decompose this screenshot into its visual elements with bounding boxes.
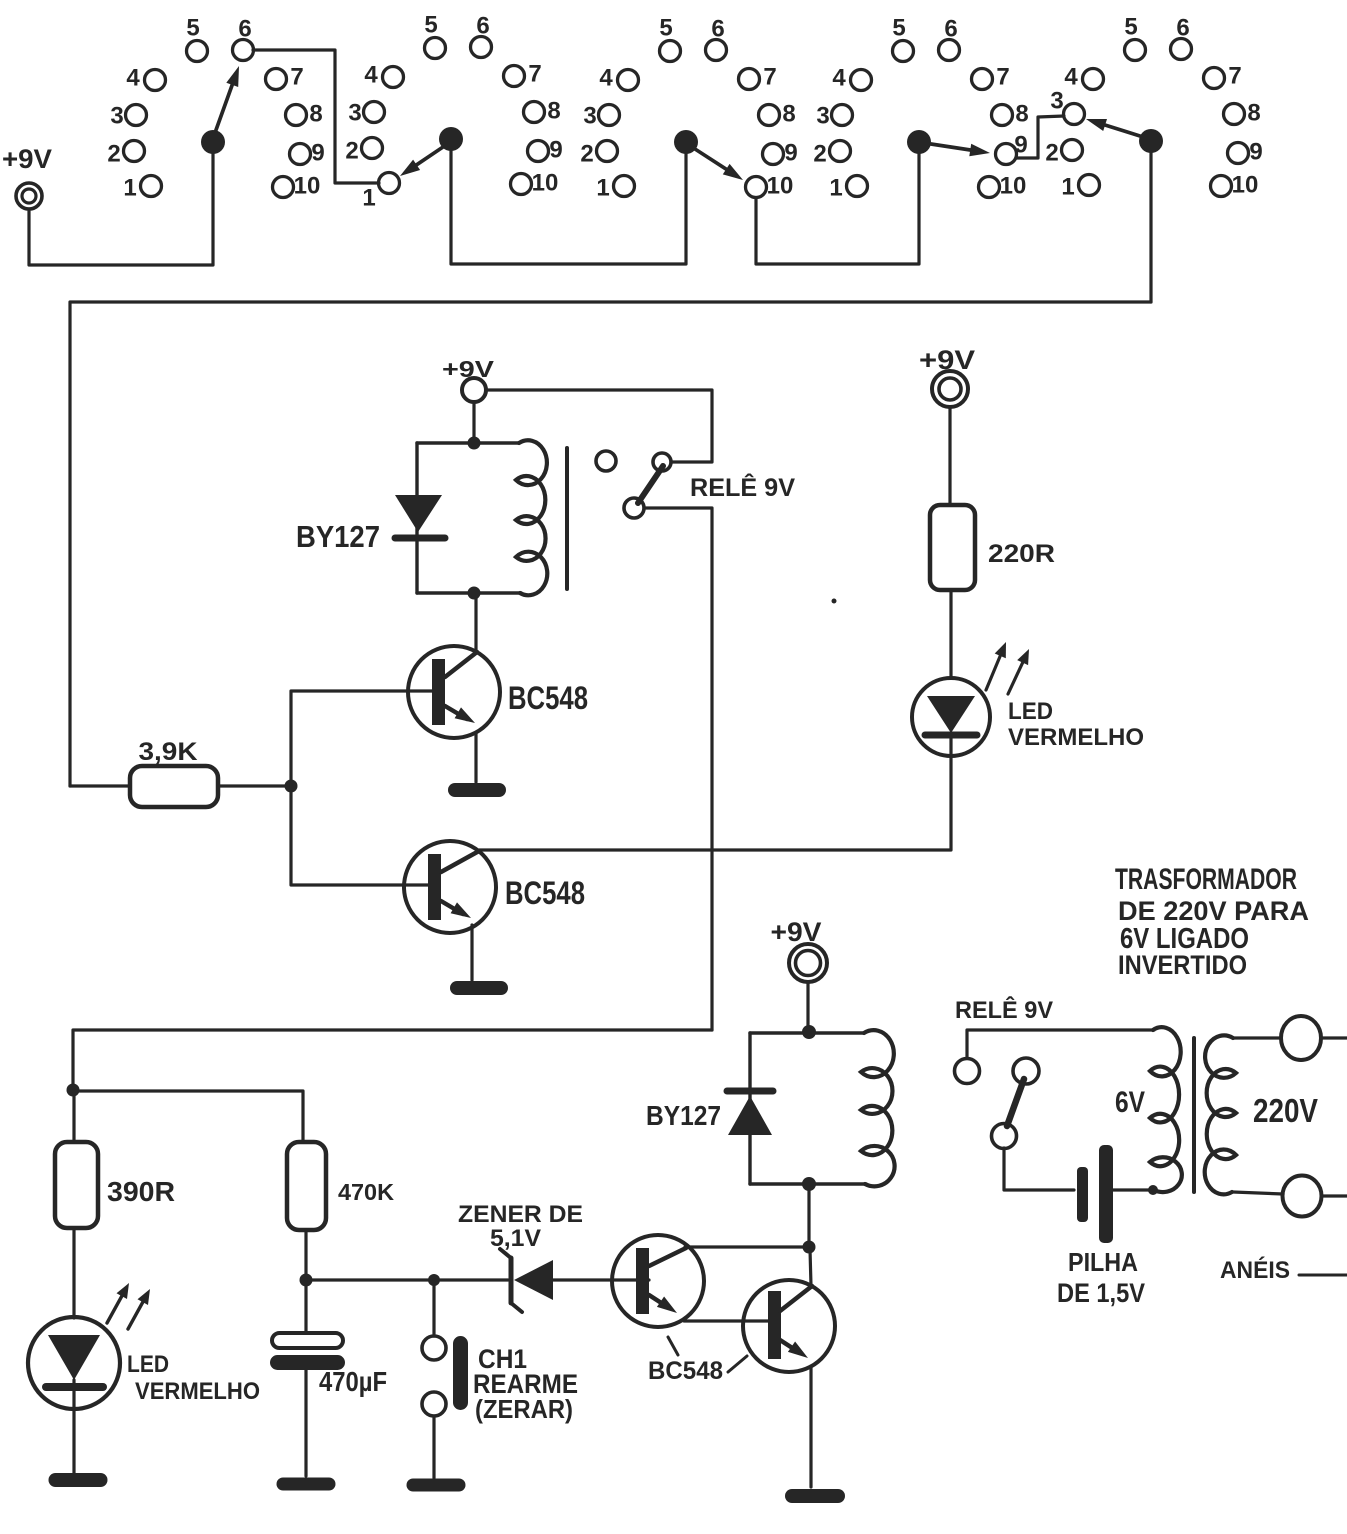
diode BY127 (relay1 flyback) bbox=[296, 495, 445, 554]
S2 contact 4 bbox=[364, 62, 403, 89]
svg-text:2: 2 bbox=[1045, 140, 1058, 167]
transformer 6V primary coil bbox=[1150, 1027, 1182, 1192]
wire capacitor to ground bbox=[304, 1370, 307, 1476]
svg-text:DE 220V PARA: DE 220V PARA bbox=[1118, 896, 1309, 926]
wire node to 470K bbox=[73, 1091, 303, 1142]
wire +9V to relay1 coil top bbox=[472, 402, 475, 443]
relay2 frame left edge bbox=[748, 1033, 751, 1184]
S2 contact 7 bbox=[504, 61, 542, 88]
S4 contact 3 bbox=[816, 103, 852, 130]
svg-text:6: 6 bbox=[476, 13, 489, 40]
switch CH1 REARME bbox=[422, 1280, 578, 1424]
svg-text:2: 2 bbox=[580, 141, 593, 168]
relay2 left contact bbox=[955, 1059, 980, 1084]
stray scan speck bbox=[832, 599, 837, 604]
S5 wiper bbox=[1139, 129, 1163, 153]
ring (anel) 2 bbox=[1283, 1176, 1322, 1217]
ground Q1 bbox=[448, 783, 506, 797]
transistor Q2 BC548 bbox=[404, 841, 585, 933]
junction lower-left node bbox=[67, 1084, 80, 1097]
svg-text:+9V: +9V bbox=[771, 917, 822, 947]
svg-text:ANÉIS: ANÉIS bbox=[1220, 1256, 1290, 1284]
svg-text:3,9K: 3,9K bbox=[139, 738, 198, 766]
svg-text:10: 10 bbox=[767, 173, 794, 200]
wire relay2 common to battery bbox=[1004, 1148, 1074, 1190]
wire relay2 contact to 6V coil top bbox=[967, 1030, 1154, 1058]
svg-text:7: 7 bbox=[996, 64, 1009, 91]
svg-text:7: 7 bbox=[1228, 63, 1241, 90]
wire S1 contact 6 to S2 contact 1 bbox=[253, 50, 379, 183]
svg-text:8: 8 bbox=[309, 101, 322, 128]
relay1 coil bbox=[417, 441, 519, 444]
svg-text:BY127: BY127 bbox=[296, 519, 380, 554]
relay1 frame left edge bbox=[415, 443, 418, 593]
diode BY127 (relay2 flyback) bbox=[646, 1091, 773, 1135]
junction 470K / capacitor node bbox=[300, 1274, 313, 1287]
svg-text:5: 5 bbox=[186, 15, 199, 42]
transformer 220V secondary coil bbox=[1205, 1035, 1236, 1194]
relay2 right contact bbox=[1013, 1058, 1039, 1084]
svg-text:3: 3 bbox=[348, 100, 361, 127]
+9V terminal (LED indicator) bbox=[919, 345, 975, 407]
svg-text:1: 1 bbox=[123, 175, 136, 202]
wire ring 1 to edge bbox=[1321, 1036, 1347, 1039]
wire S4 contact 9 to S5 contact 3 bbox=[1016, 116, 1064, 158]
S5 contact 10 bbox=[1211, 172, 1259, 199]
relay1 NC contact bbox=[653, 453, 671, 471]
svg-text:PILHA: PILHA bbox=[1068, 1247, 1138, 1277]
svg-text:5: 5 bbox=[892, 15, 905, 42]
junction relay2 coil bottom bbox=[802, 1177, 816, 1191]
svg-text:BY127: BY127 bbox=[646, 1100, 721, 1131]
S1 wiper arrow to contact 6 bbox=[216, 79, 234, 130]
wire +9V terminal to S1 wiper bbox=[29, 151, 213, 265]
svg-text:4: 4 bbox=[364, 62, 378, 89]
svg-text:6: 6 bbox=[944, 16, 957, 43]
wire S3 contact 10 to S4 wiper bbox=[756, 153, 919, 264]
S4 contact 9 bbox=[996, 132, 1028, 165]
S1 contact 10 bbox=[273, 173, 321, 200]
S3 wiper bbox=[674, 130, 698, 154]
svg-text:4: 4 bbox=[126, 65, 140, 92]
S1 contact 9 bbox=[290, 140, 325, 167]
svg-text:VERMELHO: VERMELHO bbox=[135, 1378, 260, 1405]
wire 3,9K to base junction bbox=[218, 784, 291, 787]
LED VERMELHO (indicator) bbox=[912, 642, 1144, 756]
svg-text:8: 8 bbox=[1015, 101, 1028, 128]
svg-text:9: 9 bbox=[1014, 132, 1027, 159]
junction CH1 node bbox=[428, 1274, 440, 1286]
label ANEIS bbox=[1220, 1256, 1347, 1284]
wire +9V to relay1 contact bbox=[486, 390, 712, 462]
wire Q1 emitter to ground bbox=[474, 733, 477, 782]
rotary switch S4 bbox=[813, 15, 1028, 202]
svg-text:220V: 220V bbox=[1253, 1092, 1318, 1129]
svg-text:BC548: BC548 bbox=[505, 875, 585, 911]
svg-text:6: 6 bbox=[238, 16, 251, 43]
relay2 common contact bbox=[992, 1124, 1017, 1149]
transformer core bbox=[1192, 1038, 1196, 1192]
ground LED bbox=[49, 1473, 108, 1487]
ground CH1 bbox=[407, 1479, 466, 1492]
lower bus wire bbox=[73, 1030, 712, 1088]
svg-text:INVERTIDO: INVERTIDO bbox=[1118, 950, 1247, 980]
wire secondary top to ring 1 bbox=[1233, 1036, 1281, 1039]
svg-text:8: 8 bbox=[547, 98, 560, 125]
svg-text:3: 3 bbox=[110, 103, 123, 130]
S4 contact 6 bbox=[939, 16, 960, 61]
svg-text:RELÊ 9V: RELÊ 9V bbox=[955, 996, 1053, 1024]
relay1 NO contact bbox=[596, 451, 616, 471]
junction 6V coil bottom bbox=[1148, 1185, 1158, 1195]
S5 contact 2 bbox=[1045, 140, 1082, 167]
S1 wiper bbox=[201, 130, 225, 154]
svg-text:BC548: BC548 bbox=[508, 680, 588, 716]
wire Q2 collector to LED circuit bbox=[479, 756, 951, 850]
S5 contact 3 bbox=[1050, 88, 1084, 125]
wire node to Q4 collector bbox=[810, 1249, 811, 1286]
S4 contact 4 bbox=[832, 65, 871, 92]
svg-text:5,1V: 5,1V bbox=[490, 1225, 541, 1252]
svg-text:470µF: 470µF bbox=[319, 1366, 387, 1397]
svg-text:LED: LED bbox=[127, 1351, 169, 1378]
svg-text:6: 6 bbox=[711, 16, 724, 43]
relay1 armature bbox=[638, 466, 663, 503]
wire Q4 emitter to ground bbox=[809, 1366, 812, 1487]
S5 contact 4 bbox=[1064, 64, 1103, 91]
S1 contact 2 bbox=[107, 141, 144, 168]
wire Q1 collector to relay1 bbox=[474, 594, 477, 651]
S1 contact 1 bbox=[123, 175, 161, 202]
S3 contact 3 bbox=[583, 103, 619, 130]
S3 contact 6 bbox=[706, 16, 727, 61]
svg-text:5: 5 bbox=[659, 15, 672, 42]
wire +9V to 220R bbox=[948, 407, 951, 505]
S4 contact 2 bbox=[813, 141, 850, 168]
wire node to zener bbox=[434, 1278, 508, 1281]
svg-text:6: 6 bbox=[1176, 15, 1189, 42]
svg-text:1: 1 bbox=[596, 175, 609, 202]
wire relay2 coil bottom to collector node bbox=[807, 1184, 810, 1245]
ground Q2 bbox=[450, 981, 508, 995]
wire bus to 3,9K bbox=[70, 784, 130, 787]
svg-text:4: 4 bbox=[1064, 64, 1078, 91]
ground Q4 bbox=[785, 1489, 845, 1503]
svg-text:4: 4 bbox=[832, 65, 846, 92]
svg-text:8: 8 bbox=[782, 101, 795, 128]
S3 contact 8 bbox=[759, 101, 796, 128]
junction relay1 coil bottom bbox=[468, 587, 481, 600]
wire +9V to relay2 coil top bbox=[806, 982, 809, 1031]
svg-text:9: 9 bbox=[549, 137, 562, 164]
S4 wiper arrow to contact 9 bbox=[931, 144, 976, 151]
label BC548 (Q3/Q4) bbox=[648, 1337, 747, 1385]
resistor 220R bbox=[930, 505, 1055, 590]
S5 contact 6 bbox=[1171, 15, 1192, 60]
+9V terminal (relay 2) bbox=[771, 917, 828, 982]
+9V terminal (relay 1) bbox=[442, 356, 495, 402]
S3 contact 2 bbox=[580, 141, 617, 168]
rotary switch S3 bbox=[580, 15, 797, 202]
S2 wiper arrow to contact 1 bbox=[412, 147, 443, 168]
S3 contact 10 bbox=[746, 173, 794, 200]
svg-text:7: 7 bbox=[290, 64, 303, 91]
S2 contact 1 bbox=[362, 173, 399, 212]
S2 contact 9 bbox=[528, 137, 563, 164]
svg-text:9: 9 bbox=[1249, 139, 1262, 166]
wire 220R to LED bbox=[949, 590, 952, 678]
S4 contact 1 bbox=[829, 175, 867, 202]
S3 contact 4 bbox=[599, 65, 638, 92]
relay1 core bar bbox=[565, 448, 569, 589]
relay1 common contact bbox=[624, 498, 644, 518]
svg-text:2: 2 bbox=[813, 141, 826, 168]
wire Q2 emitter to ground bbox=[470, 925, 473, 980]
wire zener to Q3 base bbox=[553, 1278, 649, 1281]
svg-text:(ZERAR): (ZERAR) bbox=[475, 1394, 573, 1424]
S2 contact 6 bbox=[471, 13, 492, 58]
svg-text:+9V: +9V bbox=[2, 144, 52, 174]
wire Q3 emitter to Q4 base bbox=[684, 1319, 768, 1322]
svg-text:8: 8 bbox=[1247, 100, 1260, 127]
S1 contact 5 bbox=[186, 15, 207, 62]
svg-text:10: 10 bbox=[294, 173, 321, 200]
S3 contact 7 bbox=[739, 64, 777, 91]
S3 contact 5 bbox=[659, 15, 680, 62]
svg-text:6V: 6V bbox=[1115, 1086, 1145, 1119]
svg-text:5: 5 bbox=[424, 12, 437, 39]
S4 contact 8 bbox=[992, 101, 1029, 128]
svg-text:1: 1 bbox=[362, 185, 375, 212]
S1 contact 8 bbox=[286, 101, 323, 128]
S2 contact 8 bbox=[524, 98, 561, 125]
S4 contact 10 bbox=[979, 173, 1027, 200]
junction relay2 coil top bbox=[802, 1025, 816, 1039]
svg-text:VERMELHO: VERMELHO bbox=[1008, 724, 1144, 751]
wire 470K to zener node bbox=[304, 1230, 307, 1277]
transistor Q3 BC548 bbox=[612, 1235, 704, 1327]
wire LED to ground bbox=[72, 1409, 75, 1473]
rotary switch S5 bbox=[1045, 14, 1262, 201]
relay2 coil bbox=[750, 1031, 864, 1034]
svg-text:BC548: BC548 bbox=[648, 1357, 723, 1385]
S1 contact 4 bbox=[126, 65, 165, 92]
S5 contact 9 bbox=[1228, 139, 1263, 166]
wire S2 wiper to S3 wiper bbox=[451, 150, 686, 264]
svg-text:RELÊ 9V: RELÊ 9V bbox=[690, 472, 795, 502]
S4 contact 5 bbox=[892, 15, 913, 62]
+9V supply terminal (top left) bbox=[2, 144, 52, 209]
transistor Q4 BC548 bbox=[743, 1280, 835, 1372]
junction collector node bbox=[803, 1241, 816, 1254]
S4 wiper bbox=[907, 130, 931, 154]
svg-text:2: 2 bbox=[345, 138, 358, 165]
S2 contact 5 bbox=[424, 12, 445, 59]
resistor 3,9K bbox=[130, 738, 218, 807]
wire S5 wiper down to bus bbox=[1149, 152, 1152, 302]
S2 contact 10 bbox=[511, 170, 559, 197]
rotary switch S1 bbox=[107, 15, 324, 202]
svg-text:470K: 470K bbox=[338, 1179, 394, 1205]
S2 contact 3 bbox=[348, 100, 384, 127]
wire junction to Q2 base bbox=[291, 786, 429, 885]
svg-text:1: 1 bbox=[1061, 174, 1074, 201]
svg-text:5: 5 bbox=[1124, 14, 1137, 41]
resistor 470K bbox=[287, 1142, 394, 1230]
S5 wiper arrow to contact 3 bbox=[1099, 123, 1140, 136]
S4 contact 7 bbox=[972, 64, 1010, 91]
svg-text:TRASFORMADOR: TRASFORMADOR bbox=[1115, 863, 1297, 896]
wire Q3 collector to node bbox=[685, 1245, 809, 1248]
svg-text:3: 3 bbox=[816, 103, 829, 130]
svg-text:9: 9 bbox=[784, 140, 797, 167]
svg-text:10: 10 bbox=[532, 170, 559, 197]
ground capacitor bbox=[277, 1478, 336, 1491]
junction base node bbox=[285, 780, 298, 793]
svg-text:DE 1,5V: DE 1,5V bbox=[1057, 1278, 1145, 1308]
svg-text:3: 3 bbox=[1050, 88, 1063, 115]
S3 wiper arrow to contact 10 bbox=[695, 149, 731, 172]
svg-text:10: 10 bbox=[1232, 172, 1259, 199]
wire CH1 to ground bbox=[432, 1416, 435, 1478]
S1 contact 6 bbox=[233, 16, 254, 61]
svg-text:7: 7 bbox=[763, 64, 776, 91]
transistor Q1 BC548 bbox=[408, 646, 588, 738]
battery PILHA 1,5V bbox=[1057, 1145, 1145, 1308]
svg-text:220R: 220R bbox=[988, 540, 1055, 568]
bus wire from S5 wiper to left side bbox=[70, 302, 1151, 786]
svg-text:LED: LED bbox=[1008, 698, 1053, 725]
svg-text:4: 4 bbox=[599, 65, 613, 92]
wire ring 2 to edge bbox=[1322, 1194, 1347, 1197]
S5 contact 1 bbox=[1061, 174, 1099, 201]
wire battery to 6V coil bottom bbox=[1113, 1188, 1150, 1191]
S5 contact 7 bbox=[1204, 63, 1242, 90]
S5 contact 8 bbox=[1224, 100, 1261, 127]
wire secondary bottom to ring 2 bbox=[1233, 1192, 1283, 1194]
svg-text:ZENER DE: ZENER DE bbox=[458, 1201, 583, 1228]
capacitor 470uF bbox=[270, 1280, 387, 1397]
wire junction to Q1 base bbox=[291, 691, 433, 786]
svg-text:3: 3 bbox=[583, 103, 596, 130]
label TRASFORMADOR text bbox=[1115, 863, 1309, 980]
zener diode 5,1V bbox=[458, 1201, 583, 1312]
junction relay1 coil top bbox=[468, 437, 481, 450]
resistor 390R bbox=[55, 1142, 175, 1228]
svg-text:1: 1 bbox=[829, 175, 842, 202]
wire relay1 common down to lower bus bbox=[644, 508, 712, 1030]
S3 contact 9 bbox=[763, 140, 798, 167]
wire node to 390R bbox=[72, 1090, 75, 1142]
svg-text:10: 10 bbox=[1000, 173, 1027, 200]
relay2 armature bbox=[1007, 1079, 1024, 1126]
wire node to CH1 node bbox=[306, 1278, 434, 1281]
S2 wiper bbox=[439, 127, 463, 151]
S2 contact 2 bbox=[345, 138, 382, 165]
rotary switch S2 bbox=[345, 12, 562, 212]
S1 contact 7 bbox=[266, 64, 304, 91]
svg-text:390R: 390R bbox=[107, 1176, 175, 1207]
S1 contact 3 bbox=[110, 103, 146, 130]
S3 contact 1 bbox=[596, 175, 634, 202]
svg-text:7: 7 bbox=[528, 61, 541, 88]
S5 contact 5 bbox=[1124, 14, 1145, 61]
wire 390R to LED bbox=[72, 1228, 75, 1318]
LED VERMELHO (bottom) bbox=[28, 1283, 260, 1409]
svg-text:9: 9 bbox=[311, 140, 324, 167]
svg-text:2: 2 bbox=[107, 141, 120, 168]
svg-text:+9V: +9V bbox=[442, 356, 495, 382]
ring (anel) 1 bbox=[1281, 1016, 1321, 1060]
svg-text:+9V: +9V bbox=[919, 345, 975, 375]
